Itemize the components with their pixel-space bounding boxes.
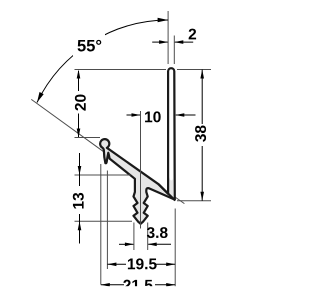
55-degree construction line (thin diagonal along arm top edge, left segment) xyxy=(31,99,103,151)
label 38 (rotated) xyxy=(195,125,206,141)
label 2 xyxy=(189,29,196,40)
label 55deg xyxy=(78,40,102,52)
arc arrowhead right (at wall extension line) xyxy=(158,18,169,23)
label 19.5 xyxy=(128,258,157,269)
3.8 left extension line xyxy=(133,223,135,251)
label 13 (rotated) xyxy=(73,193,84,209)
13 bottom extension line xyxy=(75,220,133,222)
55-degree dimension arc xyxy=(37,20,168,103)
bottom extension line for 38 (right of wall tip) xyxy=(177,200,211,202)
profile cross-section body (arm, knob, barb stem, wall) xyxy=(100,68,175,224)
55-degree construction line (right segment beyond wall) xyxy=(176,197,185,203)
dimension 10 (horizontal) xyxy=(127,114,141,116)
dimension 3.8 (horizontal, small) xyxy=(119,243,133,245)
dimension 38 (vertical, right) xyxy=(201,70,203,125)
arm top edge continuation through junction xyxy=(159,184,176,200)
13 top extension line xyxy=(75,174,131,176)
top horizontal extension line (right of wall, for 38) xyxy=(177,69,211,71)
extension line: wall left, above (x=168.1) xyxy=(167,11,169,64)
dimension 13 (vertical, left) xyxy=(79,153,81,186)
label 21.5 xyxy=(123,280,152,291)
label 10 xyxy=(145,111,161,122)
left extension line for 19.5 (x=107.3) xyxy=(106,171,108,270)
left extension line for 21.5 (x=100.2) xyxy=(100,164,102,285)
arc arrowhead left (at 55-degree line) xyxy=(37,92,44,103)
wall inner slot (white, rounded ends) xyxy=(169,70,173,181)
3.8 right extension line xyxy=(147,223,149,251)
top horizontal extension line (left of wall, for 20) xyxy=(75,69,167,71)
dimension 2 (wall thickness) xyxy=(152,41,167,43)
white crop strip at image bottom xyxy=(0,286,247,296)
dimension 19.5 (horizontal) xyxy=(107,263,126,265)
label 20 (rotated) xyxy=(75,95,86,111)
ball-top extension line (for 20 bottom) xyxy=(75,137,101,139)
wall-tip extension line down (right ref for 19.5/21.5) xyxy=(174,209,176,291)
stem centre extension line (for 10) xyxy=(140,111,142,229)
extension line: wall right, above (x=174.3) xyxy=(173,36,175,65)
dimension 20 (vertical, left) xyxy=(78,71,80,91)
dimension 21.5 (horizontal, bottom) xyxy=(101,284,124,286)
white backing for 55-degree label xyxy=(73,34,105,56)
label 3.8 xyxy=(147,227,168,238)
